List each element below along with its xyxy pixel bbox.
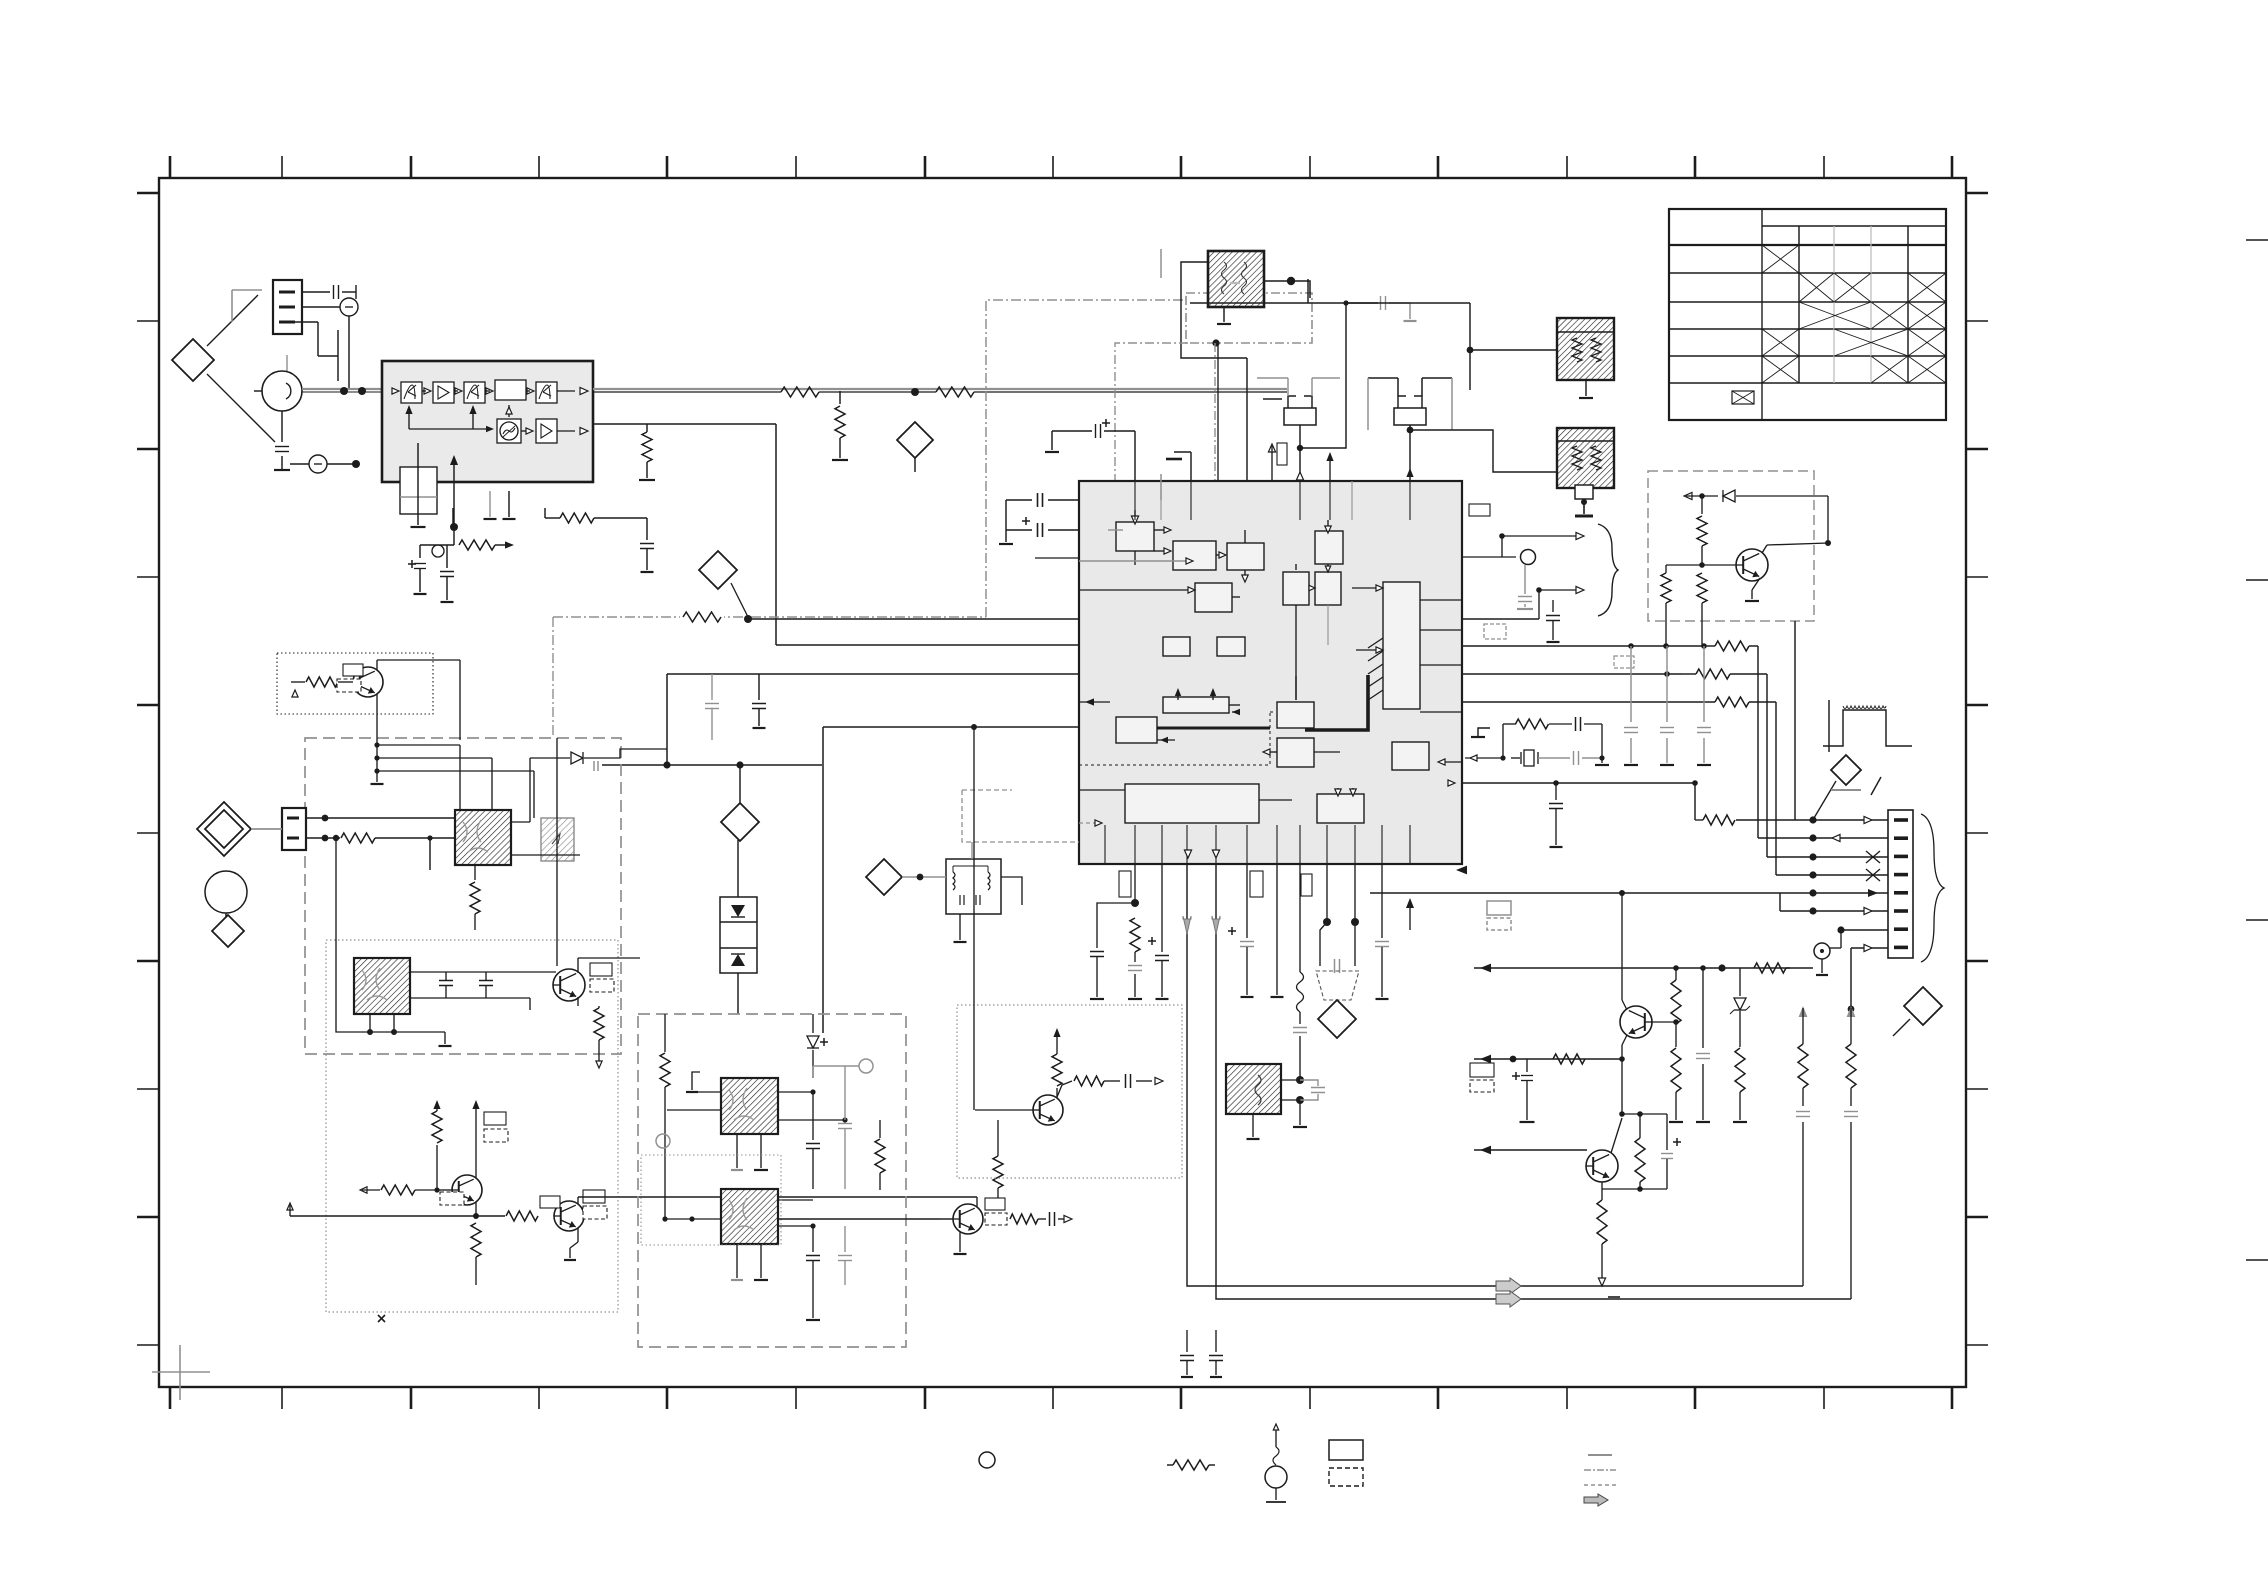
RF bus wire: [593, 391, 781, 393]
IC internal block a9: [1217, 637, 1245, 656]
resistor R22: [1696, 669, 1730, 679]
bus into dashed box: [377, 744, 460, 746]
Q8 collector: [1622, 1000, 1627, 1010]
pin label box T11: [1277, 443, 1287, 465]
IC internal arrows row1: [1131, 516, 1138, 524]
capacitor C5: [446, 545, 448, 568]
label box pair LB5: [1487, 901, 1511, 915]
wire x1346 down to T11: [1300, 303, 1346, 448]
CN3 row6: [1780, 910, 1888, 912]
hatched block H6: [354, 958, 410, 1014]
table X r3c5: [1908, 302, 1946, 329]
wire x1218 from dashdot box: [1217, 343, 1219, 540]
tuner filter stage 1: [401, 382, 422, 403]
wire y765: [602, 764, 822, 766]
node A: [744, 615, 752, 623]
gray circle osc1: [859, 1059, 873, 1073]
M1 right tail: [1001, 877, 1022, 905]
Q3 collector labels: [484, 1112, 506, 1125]
IC lines to tall box: [1352, 587, 1381, 589]
wire IC right y557 circle: [1462, 556, 1516, 558]
wire y303 to X2: [1346, 302, 1470, 304]
registration cross: [152, 1371, 210, 1373]
wire left edge arrow: [287, 1203, 293, 1210]
transistor Q9: [1586, 1150, 1618, 1182]
dash-dot box around X1: [1186, 293, 1312, 343]
CN3 row5: [1370, 892, 1888, 894]
top/bottom tick marks: [169, 156, 172, 178]
Q2 collector: [577, 958, 579, 973]
CN4 wires: [306, 817, 455, 819]
pulse waveform icon: [1828, 700, 1830, 752]
Q2 emitter arrow: [596, 1061, 602, 1068]
antenna diamond CN1: [172, 339, 214, 381]
IC U1 body: [1079, 481, 1462, 864]
IC internal block a1: [1116, 522, 1154, 551]
RF jack J1: [262, 371, 302, 411]
capacitor C10: [1380, 296, 1382, 310]
Q7 base resistors: [1661, 573, 1671, 603]
resistor R37 v: [1635, 1138, 1645, 1182]
Q7 collector: [1762, 545, 1767, 553]
gray dashed bus into IC: [962, 790, 1079, 842]
CN3 row7: [1841, 929, 1888, 931]
IC internal block a10 tall: [1383, 582, 1420, 709]
dotted box B2: [326, 940, 618, 1312]
SAW ground: [1223, 307, 1225, 322]
transistor Q3: [452, 1175, 482, 1205]
X3 internal: [1557, 440, 1614, 442]
diamond TP7 double: [197, 802, 251, 856]
ceramic filter X3 hatched: [1557, 428, 1614, 488]
node on RF bus: [911, 388, 919, 396]
Q4 collector: [577, 1197, 579, 1204]
wire y727 to IC: [823, 726, 1079, 728]
IC internal block a7: [1195, 583, 1232, 612]
Q3 base label: [440, 1192, 464, 1205]
cap C24 gray: [711, 674, 713, 700]
wire bus to IC: [748, 618, 1079, 620]
gray wire osc: [813, 1065, 859, 1067]
gray dashed from IC left: [961, 842, 963, 1005]
IC internal block a6: [1315, 572, 1341, 605]
IC bus ribbon diagonals: [1368, 690, 1383, 700]
tuner mixer: [497, 419, 521, 443]
table header divider: [1761, 209, 1763, 420]
wire X1 top loop: [1181, 262, 1247, 358]
gnd symbol top: [1174, 451, 1191, 453]
Q3 bias resistor v: [436, 1145, 438, 1190]
T5 collector: [976, 1197, 978, 1207]
dashed box B1: [305, 738, 621, 1054]
CN3 row1: [1736, 819, 1888, 821]
dash-dot control bus: [553, 616, 986, 618]
diamond TP2: [897, 422, 933, 458]
wire IC right y674: [1462, 673, 1682, 675]
tuner block TU1: [382, 361, 593, 482]
T5 emitter: [959, 1231, 961, 1252]
IC mixer connects: [1295, 564, 1297, 570]
Q6 base wire: [975, 1109, 1033, 1111]
Q9 base wire: [1474, 1149, 1587, 1151]
wire X1 lower bus: [1190, 302, 1378, 304]
circle J6: [1814, 943, 1830, 959]
transistor Q6: [1033, 1095, 1063, 1125]
table X r2c2: [1799, 273, 1834, 302]
H4 internals curves: [463, 820, 488, 852]
caps column x813: [812, 1092, 814, 1140]
IC internal block a4: [1315, 531, 1343, 564]
gnd stub y732: [1478, 728, 1490, 737]
resistor R52 v: [997, 1148, 999, 1156]
Q4 emitter: [577, 1228, 579, 1242]
H8 right wires: [778, 1199, 813, 1201]
connector CN4: [282, 808, 306, 850]
legend block arrow: [1584, 1494, 1608, 1506]
table X r4c5: [1908, 329, 1946, 356]
resistor R32 v: [1798, 1044, 1808, 1088]
long wire x1187 to bottom bus: [1187, 864, 1803, 1286]
gray arrows up x1803 x1851: [1799, 1006, 1808, 1017]
IC wires a11 a12: [1295, 676, 1297, 700]
Q1 base resistor: [292, 690, 298, 697]
arrow jog 2: [1539, 590, 1580, 619]
pin label box p2: [1250, 871, 1263, 897]
table X r2c3: [1834, 273, 1871, 302]
H4 right wires: [511, 821, 530, 823]
cap column x1703: [1702, 968, 1704, 1048]
resistor R21: [1715, 641, 1749, 651]
IC internal block a15: [1392, 742, 1429, 770]
table row lines: [1669, 272, 1946, 274]
H6 bottom pins: [369, 1014, 371, 1032]
tuner pins: [417, 467, 419, 525]
gray slash mark: [1831, 789, 1861, 791]
crystal subcircuit: [1502, 724, 1504, 758]
ground G1: [274, 469, 290, 471]
IC internal arrows row2: [1244, 530, 1246, 543]
label boxes LB1: [1470, 1063, 1494, 1077]
capacitor C6: [640, 543, 654, 545]
rail y1059: [1474, 1058, 1622, 1060]
table legend xbox: [1732, 391, 1754, 404]
electrolytic C30: [1512, 1075, 1520, 1077]
gray dashdot long line: [552, 617, 554, 738]
Q8 emitter: [1622, 1035, 1627, 1045]
X3 input loop: [1410, 430, 1557, 472]
dashed box Q7 region: [1648, 471, 1814, 621]
wire H4 bottom: [429, 838, 431, 870]
wire y972 long: [556, 971, 930, 973]
IF transformer T11: [1284, 408, 1316, 425]
wire IC right y783: [1448, 780, 1455, 786]
top rail y968: [1474, 967, 1790, 969]
X2 ground: [1585, 380, 1587, 396]
pin arrows down: [1184, 850, 1191, 858]
IC wide box wires: [1079, 789, 1125, 791]
wire to H2 filter: [1467, 347, 1474, 354]
Q7 diode: [1684, 492, 1692, 499]
resistor R33 v: [1846, 1044, 1856, 1088]
IC internal block a16 bottom wide: [1125, 784, 1259, 823]
resistor R4 on RF bus: [781, 387, 819, 397]
arrow jog 1: [1502, 536, 1580, 557]
H7 bottom pins: [736, 1134, 738, 1168]
Q1 label boxes: [343, 664, 363, 676]
SAW filter X1 hatched: [1208, 251, 1264, 307]
capacitor C11: [1006, 499, 1032, 501]
diamond TP4: [1318, 1000, 1356, 1038]
IC top pins: [1134, 481, 1136, 520]
Q1 collector loop: [459, 660, 461, 740]
gray dash-dot verticals into IC top: [1115, 343, 1188, 481]
X3 pedestal ground: [1575, 485, 1593, 499]
column x1300 coil: [1299, 864, 1301, 972]
vert line x930: [929, 838, 931, 1219]
tuner filter stage 3: [464, 382, 485, 403]
CN3 row2: [1758, 837, 1888, 839]
branch cap x1097: [1097, 903, 1135, 948]
legend solid box: [1329, 1440, 1363, 1460]
hatched block H4: [455, 810, 511, 865]
column x1382: [1381, 864, 1383, 938]
column x1277: [1276, 864, 1278, 995]
vertical x1622: [1621, 1059, 1623, 1114]
pin label box p1: [1119, 871, 1131, 897]
Q7 base wire: [1666, 564, 1736, 566]
jack J3 circle: [282, 463, 308, 465]
Q9 emitter: [1601, 1182, 1603, 1189]
pin label box p3: [1301, 874, 1312, 896]
T5 base wire: [940, 1218, 953, 1220]
table X r4c1: [1762, 329, 1799, 356]
H6 wires right: [410, 971, 556, 973]
wire x1191 into IC: [1190, 452, 1192, 481]
wire x1135 into IC: [1134, 431, 1136, 560]
connector CN3: [1888, 810, 1913, 958]
gray x1161 stub top: [1160, 249, 1162, 278]
IC internal block a13: [1116, 717, 1157, 743]
tuner osc amp: [536, 419, 557, 443]
T5 output resistor: [983, 1230, 1003, 1232]
IC internal block a17: [1317, 794, 1364, 823]
electrolytic C12 top: [1102, 422, 1110, 424]
caps lower x813 x845: [812, 1226, 814, 1252]
Q7 top resistor: [1701, 496, 1703, 514]
resistor R6 drop: [839, 391, 841, 404]
tuner AGC box: [400, 467, 437, 514]
ground G10: [812, 1300, 814, 1318]
pin label box right: [1469, 504, 1490, 516]
Q2 base feed from AFT: [556, 738, 558, 966]
transistor Q8: [1620, 1006, 1652, 1038]
table X r3c4: [1871, 302, 1908, 329]
caps column x845 gray: [844, 1066, 846, 1120]
wire C2 pin3 down: [295, 321, 318, 323]
gray rails around T12: [1367, 378, 1369, 430]
wire y1219 through box: [721, 1218, 957, 1220]
IC dashed line to a12: [1079, 712, 1270, 765]
tuner tuning voltage arrow: [453, 462, 455, 491]
label dashed box: [1614, 656, 1634, 668]
Q6 base feed: [973, 727, 975, 1110]
resistor R10 on bus: [680, 609, 724, 625]
Q2 emitter resistor: [577, 997, 579, 1006]
circle M2: [205, 871, 247, 913]
curly brace: [1598, 524, 1618, 616]
IC thick L bus: [1305, 675, 1368, 730]
legend coil symbol: [1273, 1447, 1279, 1465]
resistor R23: [1715, 697, 1749, 707]
resistor column x1676: [1671, 980, 1681, 1024]
transistor Q1: [353, 667, 383, 697]
vertical from Q7 box: [1794, 621, 1796, 820]
TP6 wire: [1893, 1019, 1910, 1036]
tuner IF output wire: [593, 423, 776, 425]
legend dashed box: [1329, 1468, 1363, 1486]
tuner filter stage 5: [536, 382, 557, 403]
RF bus gray rail: [593, 388, 1287, 390]
arrow pin x1272: [1268, 444, 1275, 452]
wire below diode pack: [737, 973, 739, 1014]
wires to H4: [459, 740, 461, 810]
cap C16 bottom: [1215, 1330, 1217, 1352]
legend dashed line: [1584, 1484, 1616, 1486]
H7 wires: [700, 1071, 721, 1073]
table X r3c23: [1799, 302, 1871, 329]
IC internal block a3: [1227, 543, 1264, 570]
IC internal block a8: [1163, 637, 1190, 656]
Q1 emitter down: [376, 694, 378, 745]
AGC wire down from tuner: [453, 527, 455, 545]
resistor R5 on RF bus: [936, 387, 974, 397]
wire IC right y702: [1462, 701, 1715, 703]
resistor R36: [1553, 1054, 1585, 1064]
wire D4 out: [603, 749, 667, 758]
IC left arrows: [1079, 701, 1110, 703]
table X r4c34: [1834, 329, 1908, 356]
cap C15 bottom: [1186, 1330, 1188, 1352]
transistor Q4: [554, 1201, 584, 1231]
Q1 collector wire: [376, 660, 378, 670]
electrolytic C11b: [1022, 520, 1030, 522]
table X r1c1: [1762, 245, 1799, 273]
table X r5c4: [1871, 356, 1908, 383]
CN3 row4: [1776, 874, 1888, 876]
electrolytic C4: [408, 563, 416, 565]
Q7 emitter ground: [1752, 578, 1760, 590]
Q3 collector arrow: [475, 1120, 477, 1178]
wire Q7 down: [1665, 618, 1667, 647]
dotted box B4: [957, 1005, 1182, 1178]
dash-dot junction dot: [1212, 339, 1219, 346]
resistor R50 v: [664, 1014, 666, 1052]
diode D4: [530, 757, 570, 759]
electrolytic C14 below IC: [1148, 940, 1156, 942]
IC thick line a13: [1157, 727, 1270, 730]
IC long bus vertical: [1295, 605, 1297, 700]
tuner stage arrows: [392, 388, 399, 394]
CN3 row3: [1767, 856, 1888, 858]
jack J2 circle: [302, 306, 340, 308]
wire J1 to tuner: [302, 388, 382, 390]
Q2 labels: [590, 963, 612, 976]
Q3 emitter: [475, 1202, 477, 1216]
pot VR1: [432, 545, 444, 557]
electrolytic C17: [1228, 930, 1236, 932]
IC internal block a5: [1283, 572, 1309, 605]
table column lines: [1798, 226, 1800, 383]
resistor R51 v: [879, 1120, 881, 1138]
table X r2c5: [1908, 273, 1946, 302]
Q8 base wire: [1651, 1021, 1676, 1023]
resistor R41 below H4: [474, 865, 476, 880]
diamond TP1: [699, 551, 737, 589]
ground stub gz: [692, 1072, 700, 1090]
resistor R8 AGC: [447, 544, 455, 546]
resistor R40: [341, 833, 375, 843]
legend gray solid line: [1588, 1454, 1612, 1456]
tuner amp stage 2: [433, 382, 454, 403]
IC arrows near a14: [1177, 690, 1179, 700]
wire IC right y619: [1462, 618, 1539, 620]
table X r5c5: [1908, 356, 1946, 383]
dashed box B3: [638, 1014, 906, 1347]
caps C22 C23: [439, 980, 453, 982]
dotted box Q1: [277, 653, 433, 714]
zener column x1740: [1739, 968, 1741, 996]
Q4 base resistor: [506, 1211, 538, 1221]
Q6 emitter res up: [1056, 1088, 1058, 1098]
funnel trapezoid dashed: [1326, 864, 1328, 922]
wire TP2: [914, 391, 916, 422]
wire IC right y646: [1462, 645, 1704, 647]
page edge marks: [2246, 239, 2268, 241]
IC internal block a2: [1173, 541, 1216, 570]
IC right edge arrows: [1420, 711, 1462, 713]
dashed label box: [1484, 624, 1506, 639]
M1 grounds: [959, 914, 961, 940]
table frame: [1669, 209, 1946, 420]
gray caps x1803 x1851: [1796, 1111, 1810, 1113]
tuner internal wires: [405, 405, 412, 414]
legend dashdot line: [1584, 1469, 1616, 1471]
crystal X5: [1465, 757, 1503, 759]
X4 right wires: [1281, 1079, 1300, 1081]
IF transformer T12: [1394, 408, 1426, 425]
diamond TP9: [212, 915, 244, 947]
diamond TP8: [866, 859, 902, 895]
diamond TP3: [739, 765, 741, 803]
H8 bottom pins: [736, 1244, 738, 1278]
cap C19: [1555, 783, 1557, 800]
column x1410 arrow: [1406, 898, 1414, 908]
bottom link y1189: [1602, 1188, 1667, 1190]
dual diode pack D2: [720, 897, 757, 973]
cap C7: [758, 674, 760, 690]
table X r5c1: [1762, 356, 1799, 383]
Q3 emitter resistor: [471, 1223, 481, 1257]
crystal H8 hatched: [721, 1189, 778, 1244]
H7 top diode and cap: [812, 1014, 814, 1033]
IC left stub wires: [1035, 557, 1079, 559]
border frame: [159, 178, 1966, 1387]
Q4 labels: [540, 1196, 560, 1208]
IC bottom pins: [1104, 825, 1106, 864]
AGC source wire: [452, 508, 454, 524]
x mark: [378, 1315, 385, 1322]
hatched H5 gray: [541, 818, 574, 861]
